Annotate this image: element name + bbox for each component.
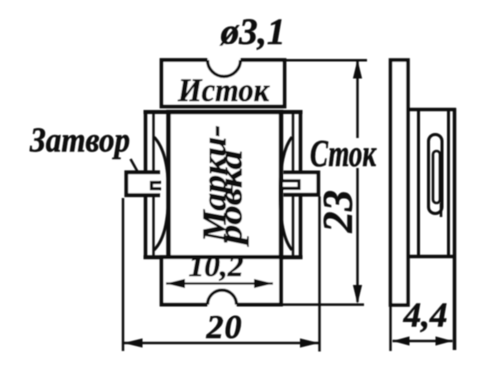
svg-text:ø3,1: ø3,1 (220, 12, 286, 53)
svg-text:Исток: Исток (177, 73, 270, 109)
svg-text:Сток: Сток (310, 133, 377, 175)
svg-text:20: 20 (206, 309, 243, 346)
svg-text:23: 23 (316, 190, 362, 234)
svg-text:ровка: ровка (213, 150, 250, 247)
svg-text:10,2: 10,2 (189, 248, 244, 283)
svg-text:Затвор: Затвор (29, 121, 130, 160)
svg-text:4,4: 4,4 (403, 296, 448, 335)
